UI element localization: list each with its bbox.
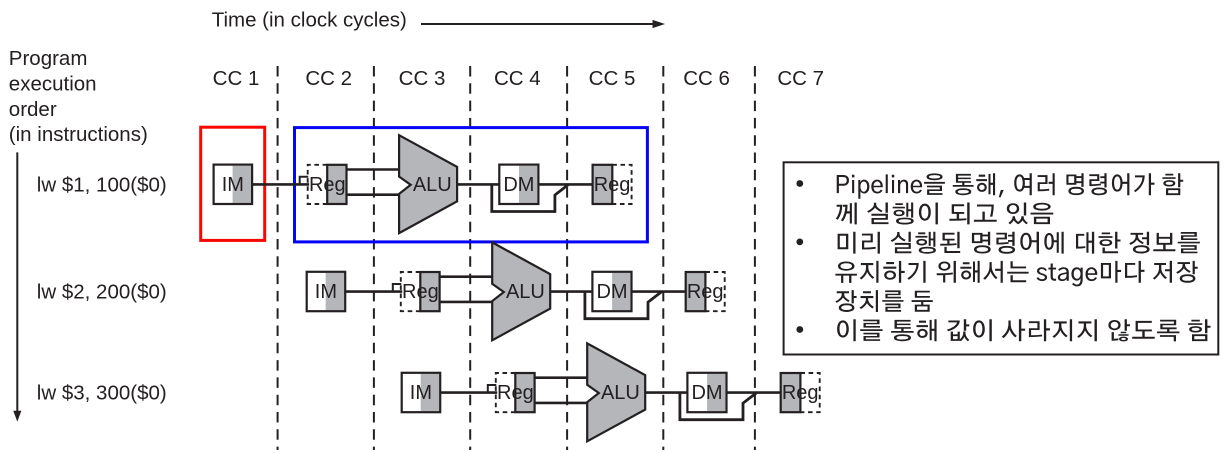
svg-text:Reg: Reg bbox=[594, 174, 631, 196]
annotation bullet 2 bbox=[796, 239, 803, 246]
wire Reg write-port hook (row 3) bbox=[488, 385, 497, 392]
wire DM to Reg write (row 1) bbox=[538, 183, 593, 186]
wire Reg to ALU lower (row 1) bbox=[347, 193, 401, 196]
wire ALU to DM (row 2) bbox=[550, 290, 593, 293]
annotation text line 6: 이를 통해 값이 사라지지 않도록 함 bbox=[837, 319, 1210, 341]
cycle boundary dashed line CC4/CC5 bbox=[566, 66, 568, 450]
svg-text:Reg: Reg bbox=[687, 281, 724, 303]
annotation bullet 5 bbox=[796, 326, 803, 333]
svg-text:CC 4: CC 4 bbox=[494, 67, 541, 90]
svg-text:ALU: ALU bbox=[413, 174, 452, 196]
svg-text:CC 7: CC 7 bbox=[777, 67, 824, 90]
wire IM to Reg (row 3) bbox=[439, 391, 498, 394]
wire ALU to DM (row 1) bbox=[457, 183, 500, 186]
wire Reg to ALU upper (row 3) bbox=[535, 376, 589, 379]
wire write-back path under DM (row 3) bbox=[680, 393, 757, 420]
wire Reg to ALU lower (row 3) bbox=[535, 402, 589, 405]
wire write-back path under DM (row 2) bbox=[585, 292, 662, 319]
svg-text:ALU: ALU bbox=[601, 382, 640, 404]
svg-text:lw $2, 200($0): lw $2, 200($0) bbox=[37, 281, 167, 304]
wire write-back path under DM (row 1) bbox=[492, 184, 569, 211]
annotation text line 1: Pipeline을 통해, 여러 명령어가 함 bbox=[837, 173, 1183, 198]
annotation text line 3: 미리 실행된 명령어에 대한 정보를 bbox=[838, 232, 1200, 254]
annotation text line 4: 유지하기 위해서는 stage마다 저장 bbox=[835, 261, 1197, 287]
svg-text:CC 1: CC 1 bbox=[213, 67, 260, 90]
wire Reg write-port hook (row 1) bbox=[300, 177, 309, 184]
wire Reg write-port hook (row 2) bbox=[393, 284, 402, 291]
program execution order label bbox=[9, 47, 148, 146]
IM stage box (row 2) bbox=[307, 272, 346, 311]
svg-text:DM: DM bbox=[503, 174, 534, 196]
Reg write stage box (row 3) bbox=[781, 373, 820, 412]
ALU stage (row 1) bbox=[399, 135, 457, 233]
svg-text:ALU: ALU bbox=[506, 281, 545, 303]
svg-text:Reg: Reg bbox=[402, 281, 439, 303]
cycle boundary dashed line CC6/CC7 bbox=[754, 66, 756, 450]
annotation text line 2: 께 실행이 되고 있음 bbox=[836, 203, 1054, 225]
Reg write stage box (row 1) bbox=[593, 165, 632, 204]
svg-text:Reg: Reg bbox=[309, 174, 346, 196]
blue highlight box around CC2-CC5 stages of instruction 1 bbox=[295, 128, 648, 242]
cycle boundary dashed line CC2/CC3 bbox=[373, 66, 375, 450]
ALU stage (row 3) bbox=[587, 343, 645, 441]
svg-text:CC 5: CC 5 bbox=[589, 67, 636, 90]
svg-text:lw $1, 100($0): lw $1, 100($0) bbox=[37, 173, 167, 196]
wire Reg to ALU lower (row 2) bbox=[440, 301, 494, 304]
Reg write stage box (row 2) bbox=[686, 272, 725, 311]
wire Reg to ALU upper (row 2) bbox=[440, 275, 494, 278]
wire DM to Reg write (row 3) bbox=[727, 391, 782, 394]
annotation box border bbox=[784, 162, 1219, 354]
annotation text line 5: 장치를 둠 bbox=[835, 290, 932, 312]
IM stage box (row 1) bbox=[214, 165, 253, 204]
Reg read stage box (row 3) bbox=[496, 373, 535, 412]
svg-text:CC 6: CC 6 bbox=[683, 67, 730, 90]
DM stage box (row 3) bbox=[687, 373, 726, 412]
program order down arrow bbox=[13, 152, 21, 421]
svg-text:Time (in clock cycles): Time (in clock cycles) bbox=[212, 9, 407, 32]
wire IM to Reg (row 2) bbox=[344, 290, 403, 293]
svg-text:execution: execution bbox=[9, 72, 97, 95]
svg-text:DM: DM bbox=[596, 281, 627, 303]
ALU stage (row 2) bbox=[492, 242, 550, 340]
svg-text:CC 2: CC 2 bbox=[305, 67, 352, 90]
cycle boundary dashed line CC1/CC2 bbox=[277, 66, 279, 450]
svg-text:CC 3: CC 3 bbox=[399, 67, 446, 90]
svg-text:lw $3, 300($0): lw $3, 300($0) bbox=[37, 382, 167, 405]
wire Reg to ALU upper (row 1) bbox=[347, 168, 401, 171]
time axis arrow bbox=[421, 20, 665, 28]
DM stage box (row 1) bbox=[499, 165, 538, 204]
svg-text:DM: DM bbox=[691, 382, 722, 404]
wire IM to Reg (row 1) bbox=[251, 183, 310, 186]
wire ALU to DM (row 3) bbox=[645, 391, 688, 394]
svg-text:order: order bbox=[9, 98, 57, 121]
svg-text:Program: Program bbox=[9, 47, 88, 70]
svg-text:Reg: Reg bbox=[782, 382, 819, 404]
Reg read stage box (row 1) bbox=[308, 165, 347, 204]
red highlight box around IM stage of instruction 1 bbox=[201, 127, 265, 240]
svg-text:IM: IM bbox=[222, 174, 244, 196]
svg-text:Reg: Reg bbox=[497, 382, 534, 404]
IM stage box (row 3) bbox=[402, 373, 441, 412]
annotation bullet 0 bbox=[796, 180, 803, 187]
DM stage box (row 2) bbox=[592, 272, 631, 311]
cycle boundary dashed line CC5/CC6 bbox=[662, 66, 664, 450]
wire DM to Reg write (row 2) bbox=[632, 290, 687, 293]
svg-text:(in instructions): (in instructions) bbox=[9, 123, 148, 146]
svg-text:IM: IM bbox=[315, 281, 337, 303]
Reg read stage box (row 2) bbox=[401, 272, 440, 311]
cycle boundary dashed line CC3/CC4 bbox=[469, 66, 471, 450]
svg-text:IM: IM bbox=[410, 382, 432, 404]
